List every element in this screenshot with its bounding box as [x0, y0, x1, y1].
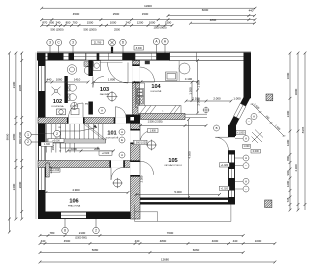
stub line marker 2 [38, 133, 54, 135]
svg-text:1.300: 1.300 [44, 143, 51, 146]
dark cabinet at top wall kitchen [145, 61, 150, 64]
svg-text:1200: 1200 [286, 180, 290, 187]
svg-text:4.300: 4.300 [187, 151, 191, 159]
dimension chain right inner [289, 52, 292, 212]
svg-text:1500: 1500 [87, 20, 94, 24]
svg-text:4500: 4500 [64, 239, 71, 243]
level box living room [134, 140, 148, 144]
svg-text:A: A [121, 153, 123, 157]
svg-text:1.000: 1.000 [244, 145, 251, 148]
svg-text:1500: 1500 [165, 20, 172, 24]
toilet at top wall bathroom [84, 67, 90, 75]
door arc V1 into kitchen 104 [140, 67, 155, 82]
kitchen stove [137, 97, 144, 105]
staircase treads room 101 upper flight [47, 124, 103, 139]
svg-text:101: 101 [107, 131, 116, 137]
svg-text:ZÁDVEŘÍ: ZÁDVEŘÍ [100, 93, 110, 96]
chimney corner block with flue [126, 115, 140, 124]
kitchen wall cabinet [166, 72, 178, 81]
dim line pass-through 1500 2505 [139, 124, 207, 127]
svg-text:PRACOVNA: PRACOVNA [68, 205, 81, 208]
dimension chain bottom row2 [39, 242, 277, 245]
svg-text:1 300: 1 300 [197, 80, 201, 88]
window openings in left wall [39, 66, 45, 91]
svg-text:1 800: 1 800 [108, 78, 116, 82]
svg-text:725: 725 [286, 197, 290, 202]
svg-text:1000: 1000 [149, 20, 156, 24]
window openings in top wall [42, 53, 48, 59]
svg-text:240: 240 [126, 20, 131, 24]
svg-text:2.300: 2.300 [140, 175, 144, 182]
svg-text:800: 800 [49, 20, 54, 24]
svg-text:+1.010: +1.010 [52, 169, 60, 172]
dimension chain top row2 [40, 18, 256, 21]
floor drain symbol room 106 [112, 178, 122, 188]
grid bubble stub lines bottom [65, 219, 96, 227]
svg-text:2500: 2500 [114, 28, 120, 32]
bathroom window recess box top wall [86, 53, 97, 60]
radiator room 106 [46, 163, 49, 177]
grid bubble 2 bottom [93, 227, 99, 233]
dimension chain left mid [15, 52, 18, 221]
svg-text:6000: 6000 [202, 8, 209, 12]
marker circle 2 in stair [54, 130, 61, 137]
svg-text:21.780: 21.780 [94, 42, 102, 45]
svg-text:A: A [245, 179, 247, 183]
svg-text:800: 800 [286, 156, 290, 161]
svg-text:5080: 5080 [92, 248, 99, 252]
door arc H1 into WC area [69, 103, 84, 118]
staircase walk line arrow [60, 128, 98, 149]
svg-text:0.000: 0.000 [253, 150, 260, 153]
dimension chain left overall 8960 [8, 52, 11, 234]
small washbasin on wall H1 [57, 109, 66, 115]
svg-text:1500 (900): 1500 (900) [154, 25, 167, 29]
svg-text:6060: 6060 [193, 248, 200, 252]
level box 8.300 [134, 46, 144, 50]
svg-text:+0.000: +0.000 [52, 139, 60, 142]
interior dim kitchen 1500 vertical [191, 81, 194, 102]
svg-text:4.300: 4.300 [294, 164, 298, 172]
svg-text:B: B [216, 126, 218, 130]
svg-text:4000: 4000 [212, 239, 219, 243]
svg-text:(1500 900): (1500 900) [75, 237, 87, 240]
corner block below bay [228, 125, 236, 136]
svg-text:500 (1500): 500 (1500) [51, 28, 64, 32]
svg-text:A: A [253, 115, 255, 119]
wall between bathroom and vestibule V3 lower jamb [88, 102, 93, 115]
svg-text:4800: 4800 [160, 239, 167, 243]
door arc V2 lower into living room [140, 161, 154, 175]
floor drain bathroom [71, 102, 78, 109]
openings in right wall [228, 137, 235, 150]
svg-text:2400: 2400 [286, 110, 290, 117]
svg-text:3: 3 [72, 41, 74, 45]
svg-text:440: 440 [135, 239, 140, 243]
svg-text:1000: 1000 [71, 147, 77, 151]
svg-text:1.000: 1.000 [233, 96, 241, 100]
dimension chain top-right 600 440 [167, 14, 256, 17]
grid bubble 3b [70, 39, 76, 45]
grid bubble stub lines left [31, 135, 38, 142]
svg-text:11900: 11900 [144, 4, 152, 8]
door arc H2 into room 106 [111, 168, 123, 180]
svg-text:3000: 3000 [294, 88, 298, 95]
svg-text:900/1500: 900/1500 [18, 132, 22, 144]
small window right of kitchen window [152, 53, 157, 59]
marker circles in stair hall [119, 129, 125, 135]
svg-text:1000: 1000 [110, 20, 117, 24]
radiator below window bathroom [84, 62, 94, 67]
partition in bathroom [64, 76, 67, 103]
svg-text:870: 870 [42, 20, 47, 24]
svg-text:+2.020: +2.020 [102, 152, 110, 155]
svg-text:3600: 3600 [286, 72, 290, 79]
marker circles along diagonal bay [251, 114, 257, 120]
svg-text:1.000/1.020: 1.000/1.020 [134, 142, 147, 145]
stair dimension line 1000 2005 [66, 150, 115, 153]
window marker stub lines right wall [235, 139, 243, 190]
grid bubble A2 [162, 38, 168, 44]
interior wall between bathroom and stair hall H1 [38, 118, 126, 124]
svg-text:1060: 1060 [56, 77, 63, 81]
dimension chain right mid [297, 52, 300, 212]
entrance door sill marks [100, 61, 123, 63]
outer contour line top [37, 50, 251, 52]
exterior wall diagonal bay [240, 95, 250, 107]
interior dim near bay 2000 [185, 100, 233, 103]
glazed wall band top right [170, 53, 251, 61]
exterior wall bottom of living room glazed [131, 198, 235, 200]
interior wall between kitchen and living room H3 [141, 114, 186, 120]
svg-text:500 (1500): 500 (1500) [84, 28, 97, 32]
radiator top wall bathroom [59, 53, 63, 60]
dimension chain bottom row4 [39, 261, 277, 264]
svg-text:240: 240 [56, 20, 61, 24]
staircase break line [84, 124, 107, 140]
svg-text:KOUPELNA: KOUPELNA [52, 105, 64, 108]
pier on bottom wall 106 [55, 213, 61, 220]
outer contour line left [35, 53, 37, 220]
svg-text:2880: 2880 [12, 133, 16, 140]
dimension chain left fine [20, 52, 23, 221]
svg-text:2005: 2005 [18, 84, 22, 91]
kitchen window recess box top wall [135, 53, 152, 60]
svg-text:4 100: 4 100 [185, 77, 193, 81]
kitchen sink [137, 89, 144, 97]
dimension chain right outer [304, 52, 307, 210]
svg-text:2: 2 [56, 132, 58, 136]
grid bubble 3 [47, 39, 53, 45]
interior wall right of stair hall V2 [131, 124, 141, 220]
cabinet box next to basin [71, 109, 79, 115]
svg-text:2100: 2100 [79, 231, 86, 235]
svg-text:104: 104 [151, 84, 161, 90]
grid bubble 2 left [25, 139, 31, 145]
svg-text:2000: 2000 [18, 181, 22, 188]
interior wall between stair hall and room 106 H2 [38, 161, 131, 168]
svg-text:1200: 1200 [286, 139, 290, 146]
svg-text:1.800: 1.800 [150, 129, 157, 132]
svg-text:OBÝVACÍ POKOJ: OBÝVACÍ POKOJ [164, 164, 182, 167]
svg-text:8960: 8960 [6, 133, 10, 140]
svg-text:8365: 8365 [301, 126, 305, 133]
svg-text:+1.020: +1.020 [221, 187, 229, 190]
level box 1.010 room 106 [51, 169, 60, 173]
svg-text:1.500 (2.505): 1.500 (2.505) [148, 120, 163, 123]
interior dim kitchen 4100 [140, 80, 199, 83]
svg-text:8.300: 8.300 [136, 47, 143, 50]
svg-text:2: 2 [27, 140, 29, 144]
svg-text:3: 3 [49, 41, 51, 45]
svg-text:4800: 4800 [210, 18, 217, 22]
dimension chain top row3 fine [40, 24, 173, 27]
exterior wall right upper [244, 53, 252, 99]
ceiling fan X symbol bathroom [52, 87, 61, 96]
svg-text:7600: 7600 [167, 231, 174, 235]
svg-text:2.000: 2.000 [213, 96, 221, 100]
svg-text:A: A [245, 156, 247, 160]
svg-text:5.000: 5.000 [174, 190, 182, 194]
washbasin vestibule [93, 61, 101, 71]
svg-text:440: 440 [233, 239, 238, 243]
level box right 1.000 [243, 145, 251, 149]
svg-text:2 100: 2 100 [192, 96, 200, 100]
svg-text:SCHODIŠTĚ: SCHODIŠTĚ [106, 137, 119, 140]
svg-text:+1.000: +1.000 [237, 131, 245, 134]
grid bubble 8 bottom [62, 227, 68, 233]
window marker circles right wall [243, 136, 249, 142]
svg-text:1200: 1200 [137, 20, 144, 24]
svg-text:2400: 2400 [12, 183, 16, 190]
survey point symbol kitchen [203, 107, 210, 114]
interior wall between vestibule and kitchen V1 [133, 61, 140, 118]
svg-text:1: 1 [27, 133, 29, 137]
kitchen table circle [179, 63, 190, 74]
exterior wall top [37, 53, 171, 61]
entrance recess box top wall [99, 53, 123, 60]
svg-text:440: 440 [249, 9, 254, 13]
level box 21.780 [92, 40, 104, 45]
window opening in bottom wall 106 [61, 212, 86, 218]
terrace door arc right wall 105 [215, 137, 228, 150]
grid bubble D [120, 39, 126, 45]
interior dim kitchen vertical [196, 59, 199, 114]
dimension chain bottom row1 [39, 234, 245, 237]
entrance door arc room 103 [108, 63, 129, 84]
top right corner block [244, 53, 252, 61]
svg-text:800: 800 [66, 20, 71, 24]
dimension chain top-right 6000/4800 [189, 22, 256, 25]
svg-text:KUCHYNĚ: KUCHYNĚ [151, 90, 162, 93]
marker circle B near terrace door [214, 125, 220, 131]
hatched column square lower right [265, 200, 272, 208]
chimney label box [148, 129, 159, 133]
svg-text:2005: 2005 [94, 147, 100, 151]
svg-text:2300: 2300 [12, 81, 16, 88]
svg-text:4.900: 4.900 [72, 188, 80, 192]
svg-text:2.400: 2.400 [49, 166, 53, 173]
door arc V2 upper into living room [140, 131, 152, 143]
svg-text:780: 780 [50, 231, 55, 235]
door arc 103 to 101 [115, 107, 126, 118]
interior dim vestibule 1800 [92, 81, 135, 84]
sill level box left wall [41, 142, 53, 146]
grid bubble C [55, 39, 61, 45]
kitchen counter left [136, 83, 145, 108]
exterior wall bottom of room 106 [38, 212, 135, 220]
grid bubble stub lines top [50, 45, 165, 53]
svg-text:1 500: 1 500 [188, 87, 192, 95]
svg-text:103: 103 [100, 87, 109, 93]
dimension chain bottom row3 [39, 251, 245, 254]
hatched column square upper right [266, 94, 273, 101]
svg-text:E: E [121, 138, 123, 142]
terrace outline bottom right [135, 205, 231, 222]
kitchen island counter [138, 106, 181, 114]
svg-text:1500: 1500 [142, 12, 149, 16]
level box 2.020 [99, 151, 112, 155]
exterior wall right of living room [228, 131, 235, 205]
grid bubble A1 [153, 38, 159, 44]
marker circle above H1 door [99, 107, 106, 114]
svg-text:12680: 12680 [161, 258, 169, 262]
stair level label [48, 139, 64, 143]
wall hung toilet on partition [68, 84, 77, 91]
svg-text:900: 900 [286, 170, 290, 175]
level box 1.000 bay [236, 131, 246, 135]
interior dim room 106 [45, 191, 130, 194]
svg-text:2500: 2500 [113, 12, 120, 16]
staircase middle stringer [47, 139, 106, 143]
svg-text:700: 700 [73, 20, 78, 24]
interior dim bathroom [45, 81, 90, 84]
svg-text:4500: 4500 [73, 12, 80, 16]
level box 1.020 upper [219, 163, 229, 167]
level box 1.020 lower [219, 186, 229, 190]
door arc V3 into vestibule [93, 77, 104, 88]
pass-through counter lines right of H3 [185, 114, 207, 118]
dimension chain diagonal outside bay [251, 104, 286, 136]
svg-text:1000: 1000 [255, 239, 262, 243]
svg-text:2: 2 [95, 229, 97, 233]
exterior wall left [38, 53, 46, 220]
level mark circle in living room [146, 140, 157, 151]
svg-text:1410: 1410 [74, 77, 81, 81]
interior dim living room 5000 [135, 193, 221, 196]
svg-text:+1.020: +1.020 [221, 164, 229, 167]
floor drain symbol vestibule [107, 91, 118, 102]
svg-text:A: A [121, 130, 123, 134]
dimension chain top overall 11900 [40, 7, 256, 10]
kitchen counter edge line [178, 61, 180, 81]
svg-text:A: A [245, 137, 247, 141]
svg-text:102: 102 [53, 99, 62, 105]
svg-text:440: 440 [47, 77, 52, 81]
bidet on partition [68, 94, 77, 101]
svg-text:440: 440 [41, 239, 46, 243]
svg-text:A: A [101, 109, 103, 113]
wall between bathroom and vestibule V3 upper [88, 61, 93, 77]
svg-text:105: 105 [168, 158, 177, 164]
level box right 0.000 [251, 149, 261, 153]
grid bubble 1 left [25, 132, 31, 138]
staircase treads lower flight [47, 143, 75, 153]
round washbasin bathroom [67, 65, 77, 75]
cross marks near bay corner [252, 130, 264, 144]
svg-text:106: 106 [69, 199, 78, 205]
section marker circle crossed [109, 39, 116, 52]
svg-text:8: 8 [64, 229, 66, 233]
interior dim living room vertical [187, 118, 190, 199]
